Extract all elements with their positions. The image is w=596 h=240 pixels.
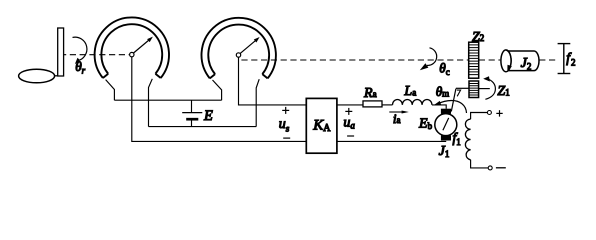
field winding top lead: [471, 113, 488, 120]
wire amp output to resistor: [337, 104, 363, 106]
gear Z1 shaft left segment: [456, 87, 469, 89]
P1 wiper pivot circle: [130, 52, 134, 56]
potentiometer P1 ring end cap left: [103, 74, 108, 78]
wire resistor to inductor: [382, 104, 393, 106]
label + (u_s): [282, 107, 289, 114]
rotation arrow theta_r: [73, 37, 87, 64]
field + terminal circle: [487, 111, 491, 115]
P1 right terminal lead: [149, 79, 153, 127]
svg-text:θm: θm: [436, 84, 450, 99]
battery top stem: [191, 100, 193, 112]
P1 left terminal lead: [106, 80, 115, 101]
potentiometer P1 ring end cap right: [155, 74, 160, 78]
input shaft axis (dashed): [64, 54, 129, 56]
potentiometer P1 ring outer arc: [95, 17, 169, 78]
potentiometer P2 ring outer arc: [201, 18, 275, 79]
wire inductor to motor top: [432, 105, 446, 109]
label + (field): [496, 110, 502, 116]
P2 wiper arrowhead: [254, 37, 260, 43]
gear Z1 rotation arrow: [483, 76, 495, 99]
svg-text:Z2: Z2: [472, 30, 484, 45]
svg-text:La: La: [403, 84, 416, 99]
gear Z1 shaft right stub: [479, 88, 490, 90]
damper f2 bottom cap: [558, 73, 571, 75]
svg-text:us: us: [279, 117, 290, 134]
svg-text:f1: f1: [453, 130, 461, 147]
output shaft axis dashed segment J2 to damper f2: [539, 59, 557, 61]
potentiometer P1 ring inner arc: [101, 24, 162, 74]
top bus wire between pot left terminals: [114, 99, 221, 101]
motor top brush: [441, 109, 451, 114]
battery long plate: [182, 112, 202, 114]
battery bottom stem: [191, 119, 193, 126]
label - (u_s): [283, 137, 290, 139]
label - (field): [496, 167, 506, 169]
handwheel disk: [58, 28, 64, 76]
resistor R1 body: [363, 101, 382, 107]
P1 wiper lead wire down and bottom signal wire to motor: [132, 57, 446, 141]
potentiometer P2 ring end cap left: [210, 74, 215, 78]
damper f2 vertical bar: [563, 44, 565, 74]
motor armature circle: [435, 114, 457, 136]
rotation arrow theta_m around motor shaft: [434, 100, 467, 113]
label + (u_a): [345, 108, 352, 115]
motor bottom brush: [441, 135, 451, 140]
label - (u_a): [347, 135, 354, 137]
current arrow i_a: [389, 111, 409, 114]
svg-text:Z1: Z1: [497, 84, 509, 99]
P2 right terminal lead: [256, 79, 259, 126]
battery short plate: [186, 118, 198, 121]
potentiometer P2 ring inner arc: [208, 25, 269, 75]
rotation arrow theta_c: [420, 48, 437, 70]
damper f2 top cap: [558, 43, 571, 45]
svg-text:Ra: Ra: [363, 86, 377, 101]
svg-text:E: E: [203, 108, 213, 124]
svg-text:J1: J1: [439, 144, 450, 159]
handwheel knob ellipse: [19, 69, 55, 83]
P1 wiper arrowhead: [147, 37, 153, 43]
load J2 end face ellipse: [501, 50, 511, 72]
svg-text:ua: ua: [343, 115, 355, 130]
amplifier box U1: [306, 98, 337, 153]
shaft break tick: [457, 90, 461, 96]
svg-text:θr: θr: [75, 59, 85, 76]
field winding coil: [465, 119, 470, 160]
P2 wiper lead wire down and top signal wire to amplifier: [239, 57, 307, 105]
handwheel crank link: [54, 75, 57, 77]
output shaft axis dashed segment gear Z2 to load J2: [479, 59, 501, 61]
field - terminal circle: [488, 166, 492, 170]
motor rotor slash: [443, 118, 449, 130]
svg-text:ia: ia: [393, 111, 401, 126]
P2 wiper pivot circle: [236, 53, 240, 57]
gear Z2 body: [469, 42, 479, 78]
svg-text:θc: θc: [439, 60, 449, 77]
svg-text:f2: f2: [566, 50, 575, 67]
svg-text:Eb: Eb: [418, 116, 433, 131]
field winding bottom lead: [471, 160, 489, 168]
gear Z1 body: [469, 81, 479, 98]
inductor L1 humps: [393, 99, 432, 104]
potentiometer P2 ring end cap right: [262, 74, 267, 78]
P2 left terminal lead: [213, 80, 222, 100]
output shaft axis dashed segment pot2 to gear Z2: [241, 59, 468, 61]
motor shaft diagonal link: [451, 89, 456, 112]
P2 wiper arm: [240, 40, 256, 53]
bottom bus wire between pot right terminals: [149, 126, 257, 128]
P1 wiper arm: [134, 40, 150, 53]
J2 face rotation arrow: [506, 50, 512, 72]
load J2 cylinder body: [506, 51, 539, 71]
